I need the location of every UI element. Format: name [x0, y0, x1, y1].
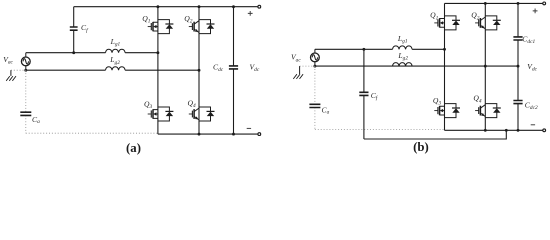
wire: right bridge leg (b): [484, 3, 486, 130]
svg-text:Lg1: Lg1: [397, 34, 408, 45]
wire: earth dashed rail (b): [315, 129, 445, 131]
junction: top rail / right leg (b): [484, 2, 487, 5]
body diode: [158, 107, 174, 121]
transistor Q2 (a) (IGBT): [189, 21, 199, 33]
transistor Q2 (b) (IGBT): [475, 17, 485, 29]
svg-text:Lg1: Lg1: [110, 37, 121, 48]
junction: upper AC line / left leg (a): [156, 51, 159, 54]
wire: bottom rail (a): [158, 133, 258, 135]
label + (a): [248, 11, 253, 16]
svg-text:Vac: Vac: [291, 53, 301, 64]
junction: bottom rail / Cdc2 (b): [517, 129, 520, 132]
svg-text:Cf: Cf: [371, 91, 379, 102]
junction: top rail / Cdc1 (b): [517, 2, 520, 5]
svg-text:Ca: Ca: [322, 106, 330, 116]
junction: source / lower AC line (b): [313, 65, 316, 68]
junction: DC midpoint (b): [517, 65, 520, 68]
inductor Lg1 (a): [106, 49, 126, 52]
inductor Lg1 (b): [393, 46, 413, 49]
svg-text:Q1: Q1: [142, 14, 150, 25]
wire: bottom rail (b): [445, 129, 543, 131]
svg-text:Cdc2: Cdc2: [525, 101, 538, 112]
svg-text:Q4: Q4: [473, 94, 481, 105]
transistor Q3 (a) (MOSFET): [148, 109, 158, 118]
capacitor Ca (b): [314, 66, 316, 130]
svg-text:(a): (a): [126, 141, 141, 155]
body diode: [445, 16, 461, 30]
terminal: DC- (a): [258, 133, 261, 136]
AC source Vac (a): [21, 53, 30, 70]
wire: left bridge leg (b): [444, 3, 446, 130]
capacitor Cf (b): [363, 49, 365, 139]
inductor Lg2 (b): [393, 63, 413, 66]
svg-text:Ca: Ca: [32, 115, 40, 125]
wire: lower AC line (a): [26, 69, 199, 71]
transistor Q1 (b) (MOSFET): [434, 18, 444, 27]
svg-text:Q2: Q2: [184, 14, 192, 25]
junction: lower AC line / right leg (a): [198, 69, 201, 72]
body diode: [485, 16, 501, 30]
wire: upper AC line (b): [315, 48, 445, 50]
earth ground symbol (b): [293, 66, 303, 79]
transistor Q3 (b) (MOSFET): [434, 106, 444, 115]
junction: Cf / upper AC line (a): [72, 51, 75, 54]
wire: earth link (b): [300, 65, 315, 67]
junction: top rail / left leg (a): [156, 5, 159, 8]
label + (b): [533, 9, 538, 14]
junction: bottom rail / Cdc (a): [232, 133, 235, 136]
svg-text:Q4: Q4: [188, 99, 196, 110]
svg-text:Lg2: Lg2: [397, 51, 408, 62]
svg-text:Vac: Vac: [3, 55, 13, 66]
inductor Lg2 (a): [106, 67, 126, 70]
junction: top rail / Cdc (a): [232, 5, 235, 8]
wire: top DC+ rail (a): [74, 6, 258, 8]
wire: upper AC line (a): [26, 52, 158, 54]
body diode: [158, 20, 174, 34]
junction: source / lower AC line (a): [24, 69, 27, 72]
svg-text:Vdc: Vdc: [250, 63, 260, 74]
svg-text:Cdc1: Cdc1: [522, 34, 535, 45]
junction: lower AC line / right leg (b): [484, 65, 487, 68]
AC source Vac (b): [311, 49, 320, 66]
wire: right bridge leg (a): [198, 7, 200, 134]
junction: bottom rail / right leg (a): [198, 133, 201, 136]
capacitor Cdc (a): [233, 7, 235, 134]
capacitor Cdc1 (b): [517, 3, 519, 66]
terminal: DC+ (a): [258, 5, 261, 8]
svg-text:Q3: Q3: [433, 96, 441, 107]
wire: lower AC line (b): [315, 65, 518, 67]
terminal: DC+ (b): [543, 2, 546, 5]
label - (a): [247, 127, 251, 129]
terminal: DC- (b): [543, 129, 546, 132]
junction: Cf / upper AC line (b): [362, 48, 365, 51]
transistor Q4 (a) (IGBT): [189, 108, 199, 120]
junction: bottom rail / right leg (b): [484, 129, 487, 132]
junction: Cf return / bottom rail (b): [505, 129, 508, 132]
svg-text:Cf: Cf: [81, 23, 89, 34]
svg-text:Q3: Q3: [144, 99, 152, 110]
svg-text:Q2: Q2: [471, 11, 479, 22]
wire: earth dashed rail (a): [26, 132, 158, 134]
body diode: [445, 104, 461, 118]
svg-text:Cdc: Cdc: [213, 63, 224, 74]
label - (b): [531, 124, 535, 126]
wire: top DC+ rail (b): [445, 2, 543, 4]
wire: left bridge leg (a): [157, 7, 159, 134]
body diode: [485, 104, 501, 118]
transistor Q4 (b) (IGBT): [475, 105, 485, 117]
svg-text:Q1: Q1: [430, 11, 438, 22]
transistor Q1 (a) (MOSFET): [148, 22, 158, 31]
wire: Cf return to DC- rail (b): [364, 130, 506, 139]
svg-text:Vdc: Vdc: [527, 62, 537, 73]
junction: top rail / right leg (a): [198, 5, 201, 8]
svg-text:(b): (b): [413, 140, 429, 154]
earth ground symbol (a): [6, 70, 16, 81]
junction: upper AC line / left leg (b): [443, 48, 446, 51]
wire: earth link (a): [11, 69, 26, 71]
body diode: [199, 107, 215, 121]
capacitor Cdc2 (b): [517, 66, 519, 130]
capacitor Cf (a): [73, 7, 75, 53]
body diode: [199, 20, 215, 34]
capacitor Ca (a): [25, 70, 27, 133]
svg-text:Lg2: Lg2: [109, 55, 120, 66]
